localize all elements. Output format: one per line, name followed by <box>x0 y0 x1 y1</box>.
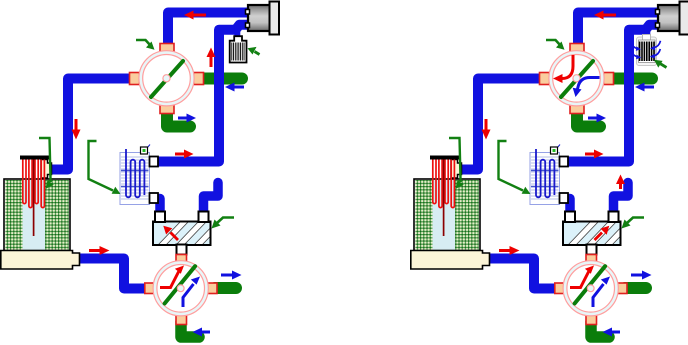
valve V4 position line <box>575 266 606 303</box>
tank body <box>4 179 70 251</box>
valve V3 body <box>549 51 604 106</box>
cooler top-right port <box>199 212 209 223</box>
pipe: pump inlet riser down to coil HX top <box>563 25 657 162</box>
thermowell dark red line <box>443 160 445 237</box>
heater core shroud <box>637 37 657 66</box>
arrow red down on tank pipe <box>72 119 81 140</box>
valve V2 position line <box>165 266 196 303</box>
valve V3 red flow arrow <box>553 55 573 83</box>
arrow green at V1 top-left <box>136 40 155 50</box>
valve V4 blue flow arrow <box>593 277 610 308</box>
valve V2 ports <box>145 255 217 325</box>
pump port upper <box>656 10 660 15</box>
arrow blue left at V4 bottom elbow <box>603 328 621 337</box>
valve V2 blue flow arrow <box>183 277 200 308</box>
arrow red up beside riser <box>207 48 216 68</box>
heater core with neck <box>230 36 247 62</box>
coil HX top sensor box <box>141 145 151 155</box>
valve V3 ports <box>540 44 614 114</box>
arrow green sensor to tank <box>449 138 464 189</box>
hose: valve V2 right port green stub <box>215 282 236 294</box>
valve V2 pivot <box>177 285 184 292</box>
valve V3 position line <box>561 61 593 97</box>
cooler body <box>153 221 225 245</box>
heater core neck <box>643 35 651 41</box>
valve V3 pivot <box>573 75 580 82</box>
tank body <box>414 179 480 251</box>
coil HX bottom port <box>150 193 159 203</box>
arrow green at heater core <box>654 60 667 68</box>
pipe: coil HX bottom to cooler left port <box>562 199 570 215</box>
pipe: pump outlet to valve V1 top <box>168 13 247 49</box>
arrow green sensor to tank <box>39 138 54 189</box>
arrow green sensor to coil HX <box>89 141 121 194</box>
pipe: heater core stub <box>234 26 240 37</box>
valve V4 red flow arrow <box>570 266 594 288</box>
arrow green at heater core <box>248 47 260 55</box>
arrow green sensor to coil HX <box>499 141 531 194</box>
pump motor body <box>248 5 271 31</box>
arrow blue left into V3 green stub <box>635 83 654 92</box>
pipe: coil HX bottom to cooler left port <box>152 199 160 215</box>
tank base <box>1 251 80 270</box>
hose: valve V1 bottom port green elbow <box>167 110 190 127</box>
cooler body <box>563 221 635 245</box>
pipe: cooler right port riser with capped end <box>204 183 219 217</box>
hose: valve V4 bottom port green elbow <box>591 322 609 337</box>
hose: valve V3 bottom port green elbow <box>577 110 600 127</box>
arrow red left on top pipe <box>594 11 616 20</box>
hose: valve V1 right port green stub <box>202 73 242 85</box>
valve V1 position line <box>151 61 183 97</box>
cooler bottom port <box>587 245 597 255</box>
cooler top-left port <box>155 212 165 223</box>
heater element red loops <box>23 160 45 208</box>
arrow red right on coil top pipe <box>175 150 194 159</box>
arrow green at cooler <box>622 218 645 229</box>
tank base <box>411 251 490 270</box>
arrow red in cooler (up-right) <box>595 226 610 240</box>
arrow blue left at V2 bottom elbow <box>193 328 211 337</box>
arrow blue right at V3 bottom elbow <box>588 114 606 123</box>
arrow blue right above V4 green stub <box>631 271 652 280</box>
pump port lower <box>246 23 250 28</box>
tank inlet port <box>41 160 52 179</box>
arrow red left on top pipe <box>184 11 206 20</box>
coil HX bottom port <box>560 193 569 203</box>
arrow red in cooler (up-left) <box>163 226 178 240</box>
valve V3 blue flow arrow <box>573 78 600 98</box>
arrow red right on tank outlet pipe <box>89 246 110 255</box>
valve V2 body <box>153 261 208 316</box>
coil HX top port <box>560 157 569 167</box>
valve V1 ports <box>130 44 204 114</box>
pump flange <box>270 2 280 35</box>
pump motor body <box>658 5 681 31</box>
valve V4 ports <box>555 255 627 325</box>
arrow red up beside capped riser <box>616 175 625 190</box>
arrow red right on coil top pipe <box>585 150 604 159</box>
pump port upper <box>246 10 250 15</box>
heater core <box>639 40 656 63</box>
pipe: pump inlet riser down to coil HX top <box>153 25 247 162</box>
arrow green at V3 top-left <box>546 40 565 50</box>
pipe: tank outlet to valve V4 left port <box>487 259 560 289</box>
valve V1 pivot <box>163 75 170 82</box>
arrow red right on tank outlet pipe <box>499 246 520 255</box>
heater core air arcs <box>631 41 661 57</box>
hose: valve V2 bottom port green elbow <box>181 322 199 337</box>
pump flange <box>680 2 688 35</box>
cooler top-right port <box>609 212 619 223</box>
hose: valve V4 right port green stub <box>625 282 646 294</box>
heater element header bar <box>20 156 49 160</box>
coil heat exchanger <box>530 149 560 205</box>
pump port lower <box>656 23 660 28</box>
pipe: pump outlet to valve V3 top <box>578 13 657 49</box>
coil heat exchanger <box>120 149 150 205</box>
valve V2 red flow arrow <box>160 266 184 288</box>
cooler bottom port <box>177 245 187 255</box>
arrow blue left into V1 green stub <box>225 83 244 92</box>
valve V4 pivot <box>587 285 594 292</box>
heater element red loops <box>433 160 455 208</box>
thermowell dark red line <box>33 160 35 237</box>
heater element header bar <box>430 156 459 160</box>
arrow blue right above V2 green stub <box>221 271 242 280</box>
valve V1 body <box>139 51 194 106</box>
pipe: tank outlet to valve V2 left port <box>77 259 150 289</box>
pipe: valve V1 left port to tank inlet <box>50 79 141 170</box>
tank inlet port <box>451 160 462 179</box>
arrow green at cooler <box>212 218 235 229</box>
hose: valve V3 right port green stub <box>612 73 652 85</box>
coil HX top sensor box <box>551 145 561 155</box>
pipe: cooler right port riser with capped end <box>614 183 629 217</box>
arrow blue right at V1 bottom elbow <box>178 114 196 123</box>
arrow red down on tank pipe <box>482 119 491 140</box>
valve V4 body <box>563 261 618 316</box>
cooler top-left port <box>565 212 575 223</box>
coil HX top port <box>150 157 159 167</box>
pipe: heater core stub <box>644 26 650 37</box>
pipe: valve V3 left port to tank inlet <box>460 79 551 170</box>
